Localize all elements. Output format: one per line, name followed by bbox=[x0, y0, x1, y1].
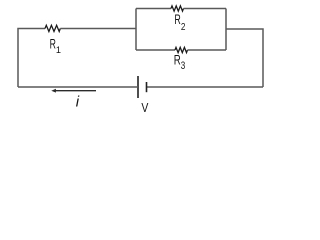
wire: bottom right segment to battery bbox=[147, 86, 264, 88]
svg-text:1: 1 bbox=[56, 45, 61, 55]
wire: box bottom edge left part bbox=[136, 49, 175, 51]
resistor R1 bbox=[45, 25, 60, 31]
wire: box top edge right part bbox=[184, 8, 227, 10]
wire: left vertical + top wire left segment bbox=[18, 29, 45, 88]
svg-text:2: 2 bbox=[181, 21, 186, 33]
wire: bottom left segment from battery bbox=[18, 86, 138, 88]
resistor R2 bbox=[171, 6, 184, 11]
battery V short plate bbox=[146, 82, 148, 92]
svg-text:V: V bbox=[141, 101, 148, 115]
wire: box top edge left part bbox=[136, 8, 171, 10]
wire: box to right corner and right vertical bbox=[226, 29, 263, 87]
node: parallel box left edge bbox=[135, 9, 137, 51]
svg-text:3: 3 bbox=[181, 60, 186, 72]
current arrow i bbox=[53, 90, 96, 92]
resistor R3 bbox=[175, 47, 188, 52]
wire: top wire right segment to box bbox=[60, 28, 136, 30]
wire: box bottom edge right part bbox=[188, 49, 227, 51]
node: parallel box right edge bbox=[225, 9, 227, 51]
battery V long plate bbox=[137, 76, 139, 98]
svg-text:i: i bbox=[76, 94, 80, 111]
